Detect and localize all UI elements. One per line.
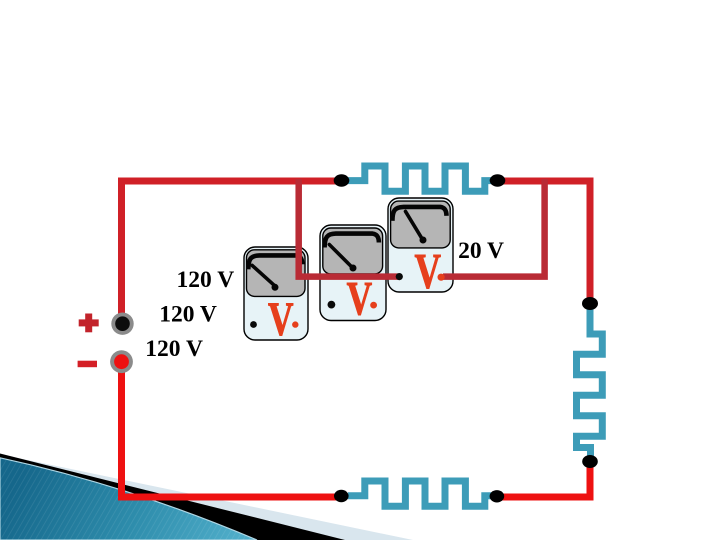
svg-text:V: V [347,273,373,326]
svg-text:120 V: 120 V [177,267,235,293]
node E (R3 left) [334,490,349,502]
wire branch from voltmeter U3 right terminal up to top rail (right tap) [443,179,545,277]
svg-text:20 V: 20 V [458,238,504,264]
voltmeter U1 (lower-left meter) [244,247,308,346]
corner decoration black triangle [0,454,345,540]
corner decoration pale triangle [0,454,413,540]
plus symbol [79,314,99,333]
node U3 positive terminal dot [438,274,445,281]
svg-text:120 V: 120 V [159,302,217,328]
voltmeter U2 (middle meter) [320,225,386,326]
svg-text:120 V: 120 V [145,336,203,362]
node U3 negative terminal dot [396,273,403,280]
wire stub into U3 negative terminal [387,273,399,280]
node D (R2 bottom) [582,455,598,468]
node C (R2 top) [582,297,598,310]
wire top-left L (from + terminal up and across top to R1) [122,181,343,314]
battery negative terminal [110,350,133,373]
svg-text:V: V [415,243,442,299]
minus symbol [78,361,97,368]
resistor R3 (bottom) [348,481,492,506]
svg-text:V: V [268,293,294,346]
node F (R3 right) [490,490,505,502]
node A (R1 left) [334,174,350,186]
corner decoration teal gradient triangle [0,458,257,540]
resistor R1 (top) [348,166,492,191]
wire top-right L (from R1 right node to top-right corner down to R2) [497,181,590,304]
node B (R1 right) [490,174,506,186]
resistor R2 (right) [577,309,603,456]
voltmeter U3 (top meter, reads 20 V) [388,198,453,299]
wire bottom-left L (from - terminal down and across bottom) [122,371,347,497]
battery positive terminal [111,313,133,335]
wire branch from top rail (left tap) down to voltmeter U3 [299,179,402,277]
wire bottom-right L (from R2 bottom node down and left to R3) [492,460,590,497]
